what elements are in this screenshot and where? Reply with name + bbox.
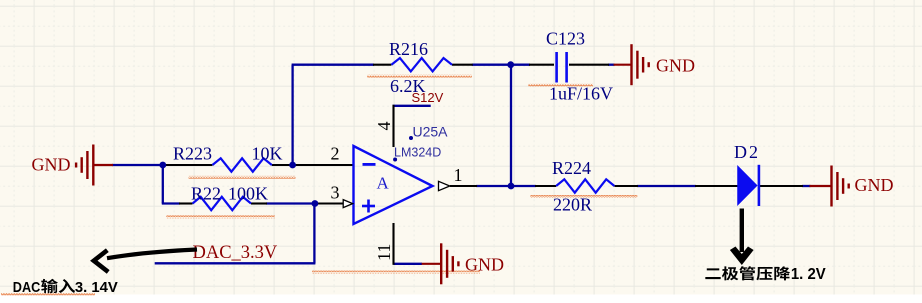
diode D2 triangle [738, 167, 757, 204]
pin 3 direction arrow [343, 200, 353, 208]
pin R223 right [272, 164, 292, 166]
pin R216 right [452, 64, 473, 66]
wire pin1 to R224 [476, 185, 536, 187]
pin 1 direction arrow [439, 181, 450, 190]
pin R22 left [179, 202, 193, 204]
error squiggle under R216 [367, 75, 472, 78]
resistor R216 body [391, 58, 452, 71]
pin R22 right [251, 202, 267, 204]
pin 4 op-amp [392, 105, 394, 147]
ground left [94, 164, 113, 166]
error squiggle under R224 [530, 195, 637, 198]
svg-text:3: 3 [331, 183, 340, 203]
svg-text:4: 4 [374, 122, 394, 131]
pin D2 anode [695, 185, 738, 187]
wire R216 to C123 [472, 64, 530, 66]
error squiggle under R223 [189, 176, 296, 179]
svg-text:10K: 10K [252, 144, 283, 164]
error squiggle under C123 [528, 84, 593, 87]
wire S12V stub [393, 105, 431, 107]
svg-text:GND: GND [465, 255, 504, 275]
resistor R223 body [212, 158, 271, 171]
svg-text:D2: D2 [734, 142, 760, 162]
pin R216 left [373, 64, 391, 66]
resistor R224 body [556, 179, 614, 192]
wire R22 to node B [266, 202, 316, 204]
svg-text:1uF/16V: 1uF/16V [549, 84, 613, 104]
wire pin11 to GND [394, 263, 423, 265]
wire node A down [162, 164, 164, 204]
wire node A to R22 [162, 202, 180, 204]
junction node D [508, 183, 515, 190]
svg-text:2: 2 [331, 144, 340, 164]
svg-text:U25A: U25A [413, 124, 449, 140]
svg-text:R22: R22 [191, 184, 221, 204]
pin C123 left [529, 64, 554, 66]
wire R224 to D2 [637, 185, 696, 187]
svg-text:1. 2V: 1. 2V [791, 266, 826, 283]
ground far right [810, 185, 832, 187]
diode D2 cathode bar [758, 165, 761, 206]
wire feedback top [292, 64, 374, 66]
junction node B [289, 162, 296, 169]
wire D2 to GND stub [802, 185, 811, 187]
capacitor C123 plates [555, 52, 558, 83]
svg-text:S12V: S12V [412, 90, 444, 105]
svg-text:3. 14V: 3. 14V [75, 279, 118, 296]
svg-text:R216: R216 [389, 39, 428, 59]
svg-text:DAC: DAC [13, 279, 41, 296]
ground bottom [422, 263, 442, 265]
junction node C [507, 61, 514, 68]
annotation text diode drop 1.2V [705, 268, 720, 279]
wire feedback vertical [291, 65, 293, 165]
pin D2 cathode [759, 185, 803, 187]
op-amp U1 triangle [354, 146, 433, 224]
svg-text:C123: C123 [546, 29, 585, 49]
svg-text:LM324D: LM324D [394, 146, 441, 160]
wire output vertical [510, 65, 512, 186]
error squiggle bottom left [1, 293, 95, 296]
wire net DAC_3.3V [155, 262, 316, 264]
pin 3 op-amp [315, 202, 344, 204]
pin R224 left [535, 185, 556, 187]
annotation arrow to DAC net [107, 250, 197, 259]
junction node E [312, 200, 319, 207]
svg-text:R223: R223 [173, 144, 212, 164]
wire node B down to net [313, 204, 315, 264]
svg-text:11: 11 [374, 244, 394, 261]
pin R224 right [614, 185, 638, 187]
svg-text:GND: GND [656, 56, 695, 76]
wire left GND to node A [112, 164, 164, 166]
error squiggle under R22 [166, 215, 274, 218]
junction node A [159, 162, 166, 169]
resistor R22 body [193, 197, 252, 210]
pin 11 op-amp [392, 223, 394, 265]
pin 1 op-amp [450, 185, 477, 187]
svg-text:GND: GND [855, 175, 894, 195]
wire C123 to GND stub [608, 64, 615, 66]
svg-text:DAC_3.3V: DAC_3.3V [193, 243, 278, 263]
ground top right [614, 64, 632, 66]
op-amp minus input mark [363, 163, 376, 166]
op-amp plus input mark [362, 205, 375, 208]
svg-text:100K: 100K [228, 184, 268, 204]
svg-text:A: A [377, 174, 390, 193]
svg-text:220R: 220R [553, 195, 592, 215]
error squiggle under GND wire [312, 271, 480, 274]
svg-text:R224: R224 [552, 158, 591, 178]
annotation arrow diode drop [740, 209, 744, 253]
pin R223 left [165, 164, 212, 166]
op-amp anchor dots [409, 136, 413, 140]
pin C123 right [569, 64, 609, 66]
pin 2 op-amp [293, 164, 354, 166]
svg-text:GND: GND [32, 155, 71, 175]
svg-text:1: 1 [454, 165, 463, 185]
